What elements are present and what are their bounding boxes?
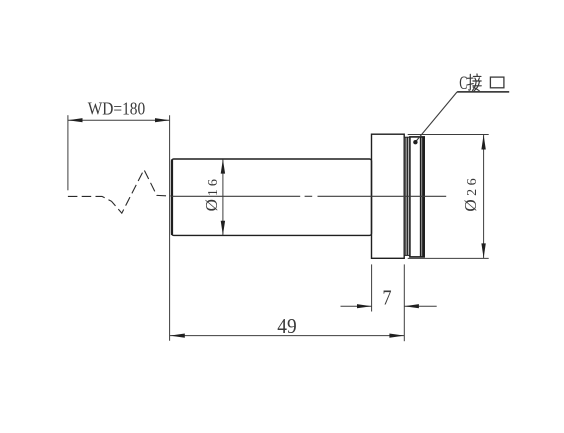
WD left extension line — [67, 115, 69, 190]
thread minor-diameter line (chamfer) — [420, 137, 422, 256]
WD dimension line — [68, 119, 170, 121]
CJK glyph 接 (drawn) — [467, 74, 481, 91]
centerline (part axis) — [172, 195, 447, 197]
7 right extension line (shared with 49) — [403, 264, 405, 341]
break line to object plane (dashed zigzag) — [68, 170, 172, 214]
svg-text:WD=180: WD=180 — [88, 99, 146, 119]
7 right arrow (points left) — [404, 304, 419, 308]
svg-text:7: 7 — [382, 285, 391, 309]
Ø26 extension lines — [408, 135, 489, 259]
barrel front edge (thick left rim) — [171, 160, 173, 236]
Ø16 bottom arrow — [221, 221, 225, 235]
lens barrel body (Ø16 cylinder) — [172, 159, 372, 235]
Ø26 bottom arrow — [481, 243, 485, 258]
7 left extension line — [371, 264, 373, 311]
49 right arrow — [389, 334, 404, 338]
svg-text:Ø26: Ø26 — [461, 175, 480, 212]
WD right arrow — [155, 118, 170, 122]
49 dimension line — [170, 335, 404, 337]
WD=180 dimension — [68, 115, 170, 341]
WD right extension line (continues down as 49 extension) — [169, 115, 171, 341]
CJK glyph 口 (drawn) — [490, 77, 504, 88]
leader dot — [413, 140, 417, 144]
7 dimension line right tail — [404, 305, 436, 307]
ring right face reinforcement — [422, 137, 424, 256]
Ø26 top arrow — [481, 135, 485, 150]
flange block — [372, 134, 405, 258]
C-mount label leader line — [416, 92, 457, 142]
Ø16 dimension — [222, 159, 224, 235]
Ø16 top arrow — [221, 159, 225, 173]
svg-text:Ø16: Ø16 — [202, 176, 221, 211]
7 dimension line left tail — [341, 305, 372, 307]
7 dimension — [341, 264, 437, 341]
49 left arrow — [170, 334, 185, 338]
WD left arrow — [68, 118, 83, 122]
svg-text:C: C — [459, 73, 467, 94]
svg-text:49: 49 — [277, 314, 296, 338]
Ø26 dimension line — [483, 135, 485, 258]
7 left arrow (points right) — [357, 304, 372, 308]
label underline — [457, 91, 509, 93]
C-mount threaded ring — [410, 137, 424, 257]
thread relief groove — [404, 137, 410, 255]
